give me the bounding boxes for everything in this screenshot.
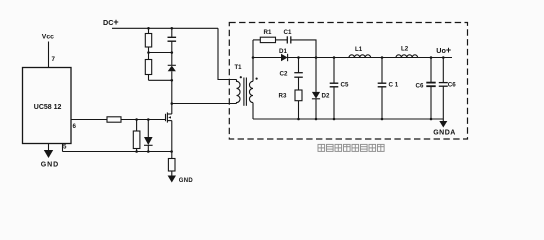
wire R1 to C1 (276, 39, 288, 41)
resistor clamp upper (145, 34, 151, 48)
wire R3 to bottom rail (298, 101, 300, 119)
wire IC to ground (48, 144, 50, 151)
op-amp U1 UC3842 controller box (23, 68, 72, 144)
svg-text:C5: C5 (341, 81, 349, 88)
caption 输出整流滤波电路 (simulated glyphs) (318, 144, 384, 151)
ground GNDA (442, 119, 444, 121)
svg-text:C6: C6 (448, 81, 456, 88)
svg-text:D1: D1 (279, 48, 287, 55)
wire to diode D3 (147, 120, 149, 138)
svg-text:R1: R1 (264, 29, 272, 36)
svg-text:GNDA: GNDA (433, 129, 456, 136)
node polarity dot secondary (256, 78, 258, 80)
wire clamp bottom link (149, 79, 172, 81)
wire clamp resistors middle (148, 47, 150, 60)
capacitor C6 right (439, 82, 448, 84)
wire DC+ rail (112, 27, 218, 29)
node junction bottom-D2 (315, 118, 318, 121)
svg-text:GND: GND (179, 178, 194, 184)
wire drain up (171, 104, 173, 115)
node junction cap-diode (171, 51, 174, 54)
svg-text:6: 6 (73, 123, 77, 130)
wire R5 to pin5 line (136, 149, 138, 152)
svg-text:7: 7 (52, 56, 56, 63)
wire to resistor R5 (136, 120, 138, 132)
node junction gate-D3 (147, 118, 150, 121)
wire Cf branch (381, 58, 383, 84)
wire secondary bottom down (252, 103, 254, 119)
svg-text:L1: L1 (355, 46, 363, 53)
ground GND under U1 (44, 150, 53, 158)
wire clamp resistor bottom (148, 75, 150, 81)
svg-text:C6: C6 (416, 83, 424, 90)
node junction bottom-Cf (381, 118, 384, 121)
svg-text:C1: C1 (284, 29, 292, 36)
svg-text:T1: T1 (235, 65, 243, 71)
node junction bottom-C5 (333, 118, 336, 121)
capacitor C5 (330, 82, 339, 84)
node junction rail-C6b (442, 56, 445, 59)
diode D2 (312, 92, 320, 99)
svg-text:C2: C2 (280, 71, 288, 78)
svg-text:Uo+: Uo+ (436, 45, 451, 55)
transformer T1 core (243, 78, 245, 106)
node junction bottom-R3 (297, 118, 300, 121)
capacitor clamp (168, 36, 177, 38)
resistor R5 gate pulldown (133, 131, 140, 149)
svg-text:GND: GND (41, 162, 59, 169)
wire pin 5 to source node (63, 151, 172, 153)
wire C2 to R3 (298, 77, 300, 90)
wire secondary to D1 (253, 57, 281, 59)
wire Vcc to pin 7 (48, 42, 50, 68)
wire pin 5 stub (62, 144, 64, 152)
resistor R4 gate series (107, 117, 121, 122)
node junction rail-C2 (297, 56, 300, 59)
wire C6a branch (430, 58, 432, 83)
transformer T1 secondary winding (249, 81, 253, 102)
wire C1 to right drop (291, 40, 316, 58)
node junction secondary-D1 (252, 56, 255, 59)
node junction gate-R5 (135, 118, 138, 121)
node junction D3-pin5 (147, 150, 150, 153)
wire rail to clamp cap (171, 28, 173, 37)
wire rail drop to primary (218, 28, 237, 79)
resistor R6 current sense (168, 159, 175, 172)
wire C5 branch (333, 58, 335, 84)
node junction R5-pin5 (135, 150, 138, 153)
svg-text:5: 5 (63, 144, 67, 151)
node polarity dot primary (240, 76, 242, 78)
node junction rail-Rclamp (147, 27, 150, 30)
wire clamp middle link (149, 52, 172, 54)
node junction rail-D2 (315, 56, 318, 59)
wire R6 to ground (171, 171, 173, 176)
diode clamp (points up) (168, 64, 176, 66)
wire drain to primary bottom (172, 103, 237, 105)
node junction drain (171, 102, 174, 105)
wire clamp to drain node (171, 71, 173, 103)
svg-text:D2: D2 (322, 93, 330, 100)
wire source down (171, 121, 173, 159)
capacitor C1 snubber (286, 36, 288, 43)
wire D2 branch (315, 58, 317, 92)
wire snubber top (253, 39, 260, 41)
node junction clamp bottom (171, 79, 174, 82)
wire output rail top (288, 57, 452, 59)
svg-text:DC+: DC+ (103, 17, 119, 27)
node junction rail-Cclamp (171, 27, 174, 30)
wire cap to middle link (171, 41, 173, 65)
node junction rail-Cf (381, 56, 384, 59)
wire pin 6 gate drive (71, 119, 107, 121)
ground GND under R6 (168, 176, 176, 183)
transformer T1 primary winding (237, 80, 241, 104)
svg-text:C 1: C 1 (389, 81, 399, 88)
wire C2 branch (298, 58, 300, 73)
node junction rail-C5 (333, 56, 336, 59)
resistor R1 (260, 37, 275, 42)
resistor clamp lower (145, 60, 151, 75)
node junction bottom-C6a (430, 118, 433, 121)
node junction rail-C6a (430, 56, 433, 59)
svg-text:L2: L2 (401, 46, 409, 53)
wire rail to clamp resistor (148, 28, 150, 33)
wire bottom rail (253, 118, 443, 120)
transistor Q1 MOSFET (165, 114, 167, 121)
node junction source-pin5 (170, 150, 173, 153)
wire resistor to gate (121, 119, 166, 121)
svg-text:R3: R3 (279, 93, 287, 100)
wire secondary top up (252, 40, 254, 81)
diode D3 (144, 137, 153, 145)
wire dashed enclosure output filter (229, 23, 467, 140)
svg-text:UC58 12: UC58 12 (34, 104, 62, 111)
capacitor C1 filter (378, 82, 387, 84)
node junction clamp middle (147, 51, 150, 54)
wire C6b branch (442, 58, 444, 83)
svg-text:Vcc: Vcc (42, 34, 54, 41)
